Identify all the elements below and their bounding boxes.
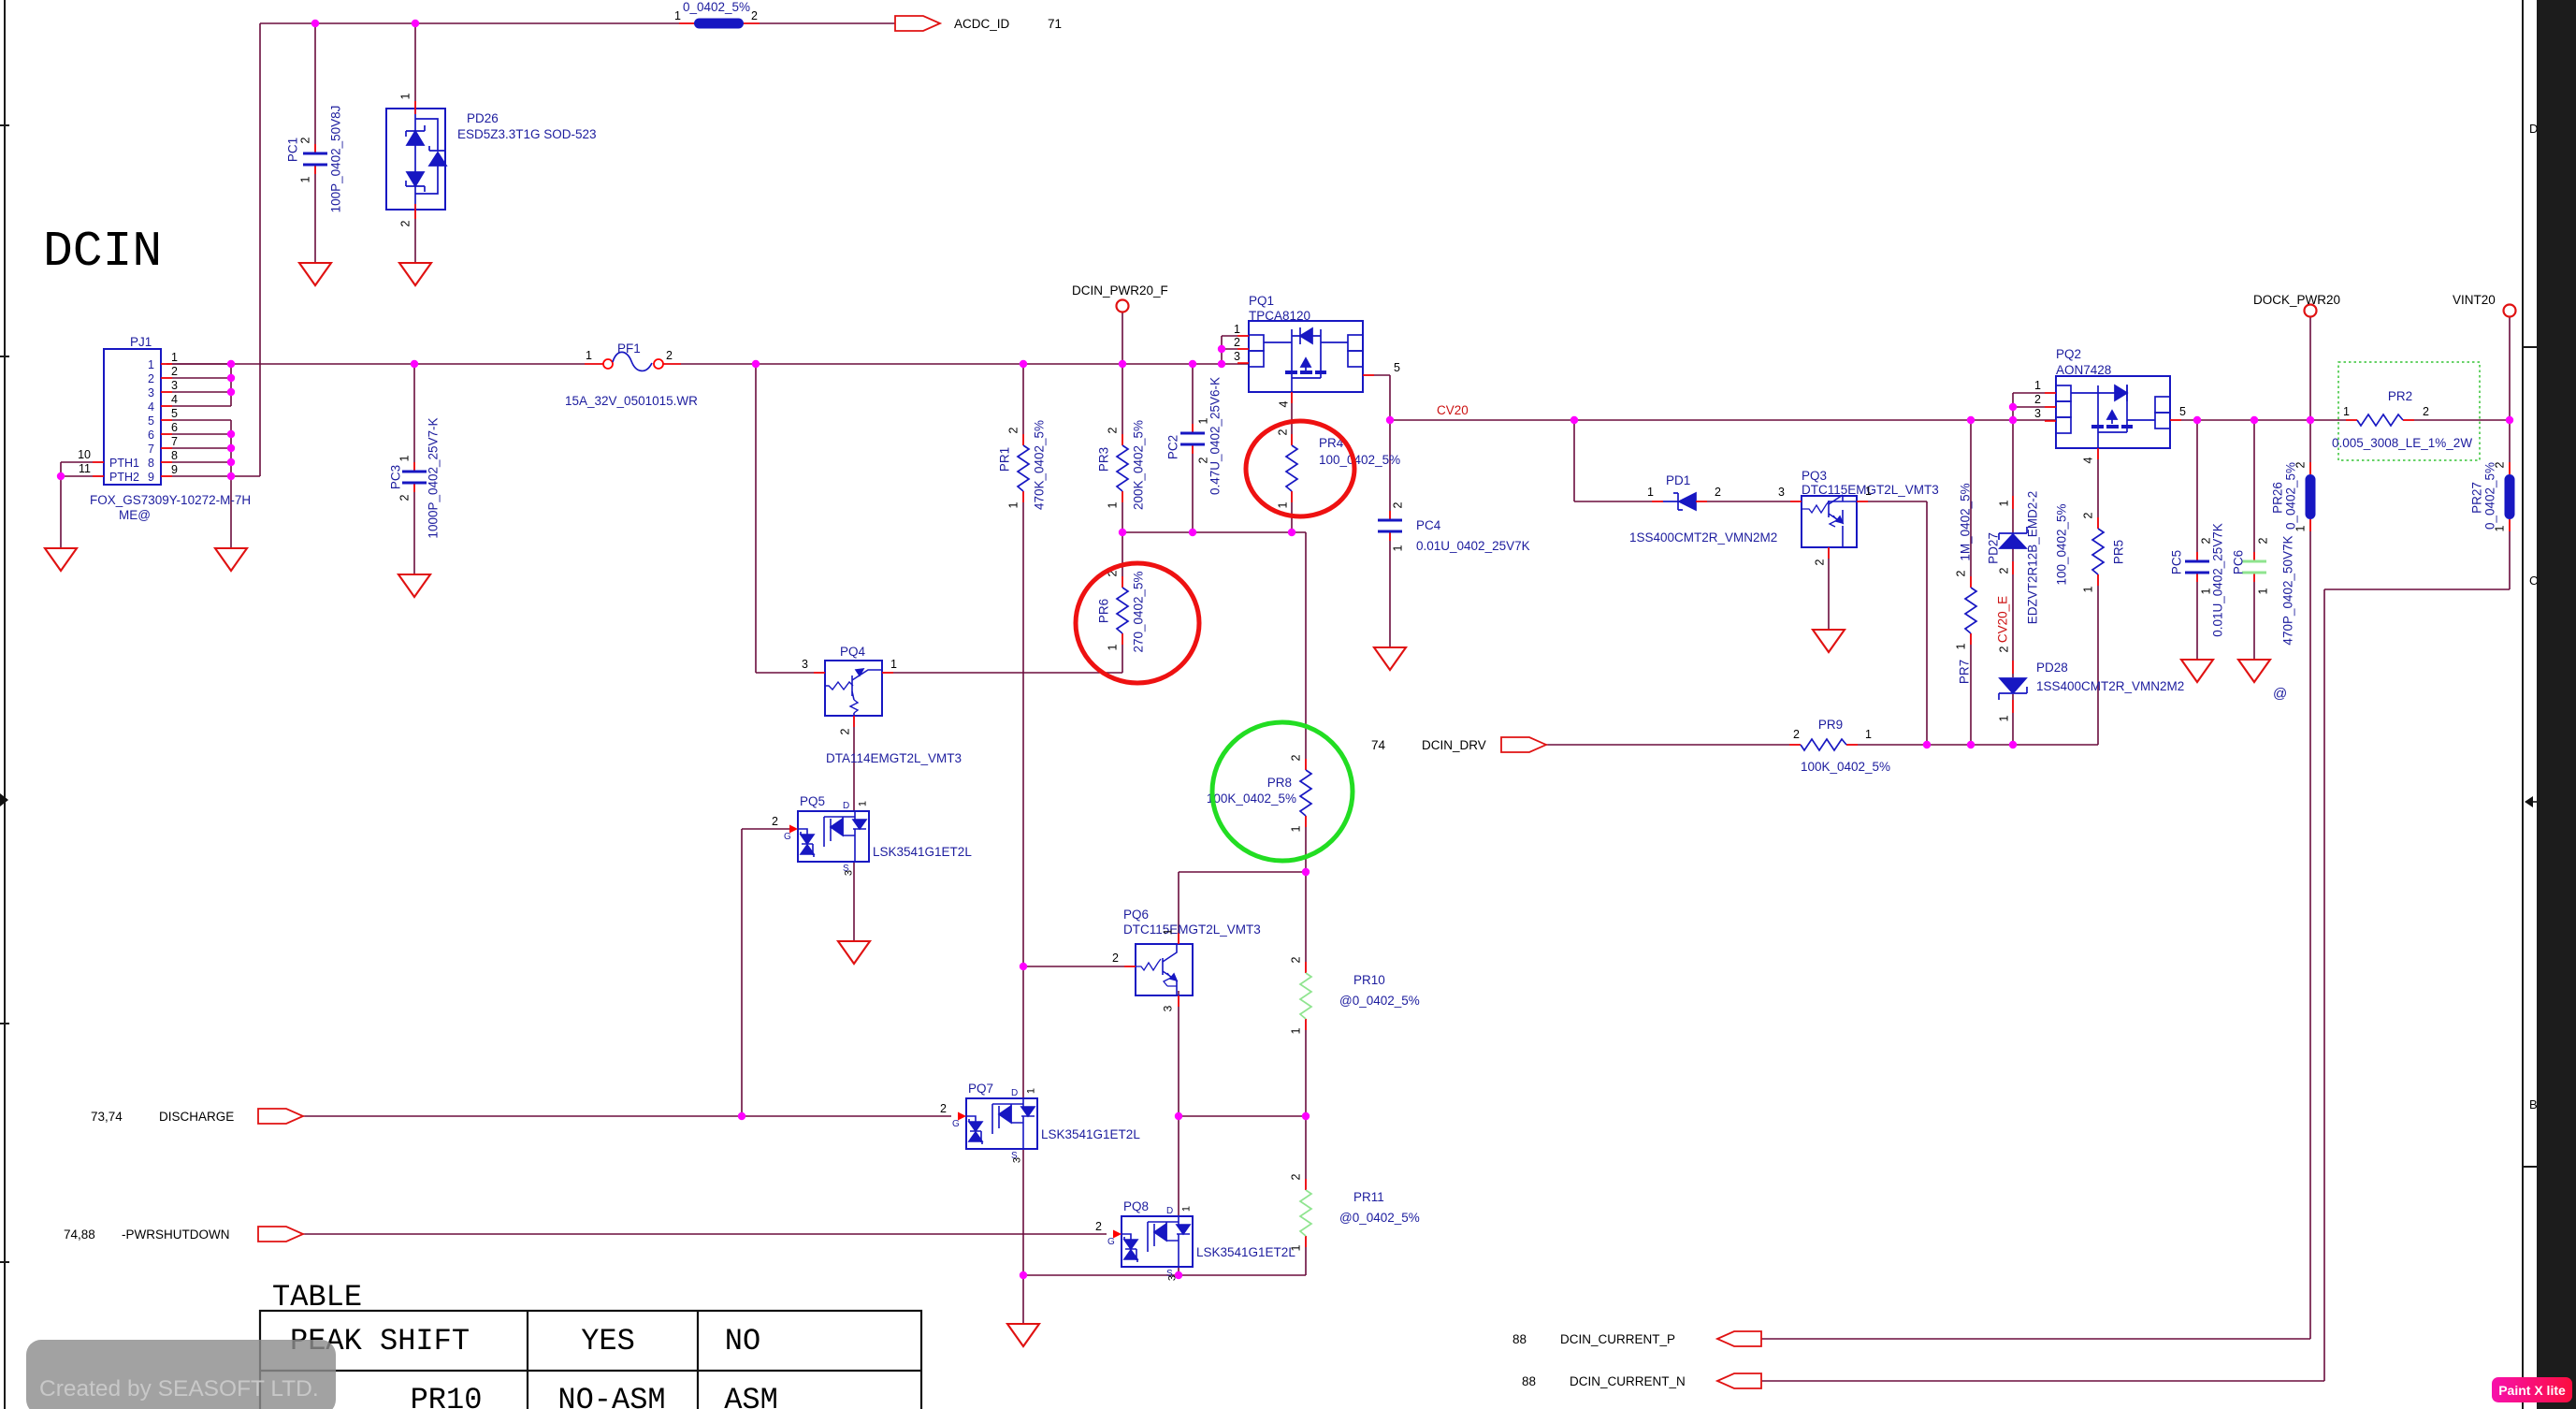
wire PQ2 pin2 wire	[2013, 406, 2056, 408]
svg-text:4: 4	[1278, 400, 1291, 407]
svg-text:2: 2	[2423, 405, 2429, 418]
sheet left border line	[4, 0, 6, 1409]
svg-text:100P_0402_50V8J: 100P_0402_50V8J	[329, 106, 343, 213]
svg-text:PR8: PR8	[1267, 776, 1292, 790]
ground PC6	[2238, 660, 2270, 682]
svg-text:PTH1: PTH1	[109, 457, 139, 470]
svg-text:2: 2	[1998, 567, 2011, 574]
wire CV20 to PD1 vertical	[1573, 420, 1575, 501]
ground PC1	[299, 263, 331, 285]
label PR1	[998, 447, 1012, 472]
junction PJ1 pin1	[227, 360, 235, 368]
wire PC3 branch	[413, 364, 415, 472]
wire PQ4 pin1 line	[882, 672, 1122, 674]
ground PQ5	[838, 941, 870, 964]
junction PJ1 pin8	[227, 458, 235, 466]
wire PC5 top	[2196, 420, 2198, 561]
junction CV20 chain	[2009, 416, 2017, 424]
ground PC4	[1374, 647, 1406, 670]
svg-text:PD28: PD28	[2036, 661, 2068, 675]
svg-text:1: 1	[1290, 1244, 1303, 1251]
svg-text:PR27: PR27	[2470, 482, 2484, 514]
svg-text:D: D	[843, 801, 849, 811]
label PC3	[389, 465, 403, 489]
svg-text:74: 74	[1371, 738, 1386, 752]
svg-text:2: 2	[1998, 646, 2011, 652]
svg-text:2: 2	[1234, 336, 1240, 349]
wire ACDC_ID top rail	[260, 22, 895, 24]
wire PC1 lower	[314, 165, 316, 263]
wire DCIN_PWR20_F stub	[1122, 312, 1123, 364]
junction PJ1 pin7	[227, 444, 235, 452]
svg-text:G: G	[952, 1119, 960, 1129]
ground PJ1 shield	[215, 548, 247, 571]
wire PQ2 pin4 wire	[2097, 448, 2099, 529]
wire PD26 branch	[414, 23, 416, 109]
junction rail PR1	[1020, 360, 1027, 368]
transistor PQ1	[1249, 321, 1363, 392]
svg-text:1: 1	[2257, 588, 2270, 594]
junction PQ1 pin2 bus	[1218, 345, 1225, 353]
svg-text:PF1: PF1	[617, 341, 641, 356]
svg-text:DCIN_DRV: DCIN_DRV	[1422, 738, 1486, 752]
svg-text:1: 1	[586, 349, 592, 362]
wire PQ6 pin3 down	[1178, 991, 1179, 1216]
label PR5	[2112, 540, 2126, 564]
svg-text:73,74: 73,74	[91, 1110, 123, 1124]
wire PR3 top	[1122, 364, 1123, 445]
svg-text:PC6: PC6	[2232, 550, 2246, 574]
svg-text:1: 1	[1290, 1027, 1303, 1034]
junction rail PR3	[1119, 360, 1126, 368]
svg-text:PC3: PC3	[389, 465, 403, 489]
svg-text:6: 6	[148, 429, 154, 442]
svg-text:@0_0402_5%: @0_0402_5%	[1339, 1211, 1420, 1225]
wire PQ6 gate line	[1023, 966, 1136, 967]
wire VINT to PR27	[2509, 420, 2511, 474]
svg-text:DOCK_PWR20: DOCK_PWR20	[2253, 293, 2340, 307]
sheet right border line	[2522, 0, 2524, 1409]
svg-text:1: 1	[171, 351, 178, 364]
transistor PQ2	[2056, 376, 2170, 448]
svg-text:7: 7	[171, 435, 178, 448]
fuse PF1	[603, 352, 663, 370]
svg-text:2: 2	[2257, 537, 2270, 544]
svg-text:PR1: PR1	[998, 447, 1012, 472]
resistor PR26	[2306, 474, 2316, 519]
svg-text:1: 1	[398, 455, 412, 461]
svg-text:PR26: PR26	[2271, 482, 2285, 514]
junction PJ1 pin3	[227, 388, 235, 396]
wire PJ1 pins5-9 gnd bus	[230, 420, 232, 548]
sheet right black margin bar	[2537, 0, 2576, 1409]
wire DCIN_CURRENT_N line	[1761, 1380, 2324, 1382]
svg-text:100_0402_5%: 100_0402_5%	[1319, 453, 1400, 467]
svg-text:ACDC_ID: ACDC_ID	[954, 17, 1010, 31]
port arrow DISCHARGE	[258, 1109, 303, 1124]
highlight circle PR4	[1246, 421, 1354, 516]
svg-text:AON7428: AON7428	[2056, 363, 2111, 377]
svg-text:2: 2	[398, 494, 412, 501]
label PD27	[1987, 532, 2001, 564]
svg-text:2: 2	[1107, 427, 1120, 433]
svg-text:PC2: PC2	[1166, 435, 1180, 459]
svg-text:B: B	[2529, 1097, 2538, 1111]
wire PC4 bottom	[1389, 531, 1391, 647]
wire DOCK_PWR20 stub	[2309, 317, 2311, 420]
junction CV20 PD1	[1570, 416, 1578, 424]
svg-text:3: 3	[2034, 407, 2041, 420]
label PR7 value	[1959, 483, 1973, 560]
svg-text:D: D	[1011, 1088, 1018, 1098]
junction rail PC2	[1189, 360, 1196, 368]
svg-text:1: 1	[858, 801, 869, 806]
svg-text:1: 1	[1998, 500, 2011, 506]
wire PC2 top	[1192, 364, 1194, 433]
svg-text:1: 1	[1865, 485, 1872, 498]
svg-text:7: 7	[148, 443, 154, 456]
svg-text:2: 2	[666, 349, 673, 362]
wire node line y569	[1122, 531, 1306, 533]
label PR6	[1097, 599, 1111, 623]
svg-text:PR10: PR10	[1353, 973, 1385, 987]
svg-text:PQ6: PQ6	[1123, 908, 1149, 922]
wire PQ3 emitter gnd	[1828, 547, 1830, 630]
svg-text:4: 4	[171, 393, 178, 406]
svg-text:1: 1	[1392, 545, 1405, 551]
junction rail PC3	[411, 360, 418, 368]
svg-text:1: 1	[1197, 417, 1210, 424]
label PC6 value	[2281, 535, 2295, 645]
wire PJ1 pins1-4 bus	[230, 364, 232, 406]
svg-text:0_0402_5%: 0_0402_5%	[2284, 462, 2298, 530]
svg-text:G: G	[784, 832, 791, 842]
label PR27 value	[2483, 462, 2497, 530]
svg-text:2: 2	[1095, 1220, 1102, 1233]
junction PQ6 gate	[1020, 963, 1027, 970]
ground PQ3	[1813, 630, 1845, 652]
wire DCIN_CURRENT_P line	[1761, 1338, 2310, 1340]
junction top rail PC1	[311, 20, 319, 27]
wire PR1 top	[1022, 364, 1024, 445]
wire PD1 right wire	[1698, 501, 1802, 502]
wire PQ7 source down	[1022, 1149, 1024, 1324]
svg-text:PD1: PD1	[1666, 473, 1690, 487]
wire PR4 bottom	[1291, 491, 1293, 532]
wire PJ1 pin4 wire	[161, 405, 231, 407]
resistor PR2	[2346, 414, 2414, 426]
wire PQ8 source stub	[1178, 1267, 1179, 1275]
svg-text:2: 2	[839, 728, 852, 734]
svg-text:TABLE: TABLE	[272, 1280, 362, 1315]
svg-text:DISCHARGE: DISCHARGE	[159, 1110, 234, 1124]
highlight circle PR6	[1076, 563, 1199, 683]
svg-text:PR6: PR6	[1097, 599, 1111, 623]
wire PC6 bottom	[2253, 573, 2255, 660]
svg-text:2: 2	[1392, 501, 1405, 508]
svg-text:270_0402_5%: 270_0402_5%	[1132, 571, 1146, 652]
wire pin9 to top rail vertical	[259, 23, 261, 476]
transistor PQ5	[798, 811, 869, 862]
svg-text:DCIN_PWR20_F: DCIN_PWR20_F	[1072, 283, 1168, 298]
svg-text:3: 3	[1012, 1157, 1023, 1163]
wire PQ1 pin5 drop	[1389, 375, 1391, 420]
svg-text:ESD5Z3.3T1G SOD-523: ESD5Z3.3T1G SOD-523	[457, 127, 597, 141]
wire PQ4 pin2 to PQ5	[853, 716, 855, 811]
junction rail x808	[752, 360, 760, 368]
svg-text:1: 1	[1026, 1088, 1037, 1094]
svg-text:PQ1: PQ1	[1249, 294, 1274, 308]
svg-text:1: 1	[1007, 501, 1020, 508]
svg-text:3: 3	[844, 870, 855, 876]
ground PC3	[398, 574, 430, 597]
svg-text:2: 2	[2494, 461, 2507, 468]
highlight circle PR8	[1212, 722, 1353, 861]
wire PR10 to PR11	[1305, 1019, 1307, 1190]
table grid	[260, 1311, 921, 1409]
junction PR8 node	[1302, 868, 1310, 876]
junction CV20E DOCK	[2307, 416, 2314, 424]
svg-text:100_0402_5%: 100_0402_5%	[2055, 503, 2069, 585]
svg-text:2: 2	[299, 137, 312, 143]
svg-text:1: 1	[2034, 379, 2041, 392]
wire PJ1 pin6 wire	[161, 433, 231, 435]
wire PTH2 wire	[61, 475, 104, 477]
wire PR5 bottom	[2097, 574, 2099, 745]
svg-text:YES: YES	[581, 1324, 635, 1358]
svg-text:1: 1	[399, 93, 412, 99]
junction CV20 PR7	[1967, 416, 1975, 424]
junction source PQ7	[1020, 1271, 1027, 1279]
svg-text:PQ7: PQ7	[968, 1082, 993, 1096]
wire DISCHARGE line	[303, 1115, 951, 1117]
svg-text:2: 2	[2200, 537, 2213, 544]
transistor PQ3	[1802, 495, 1857, 547]
ground PC5	[2181, 660, 2213, 682]
svg-text:PQ2: PQ2	[2056, 347, 2081, 361]
label PR6 value	[1132, 571, 1146, 652]
svg-text:CV20_E: CV20_E	[1996, 596, 2010, 643]
svg-text:4: 4	[148, 400, 154, 414]
assembly box PR2	[2338, 362, 2480, 460]
capacitor PC3	[402, 462, 427, 492]
capacitor PC2	[1180, 424, 1205, 454]
svg-text:2: 2	[171, 365, 178, 378]
diode PD26	[386, 109, 446, 210]
svg-text:1SS400CMT2R_VMN2M2: 1SS400CMT2R_VMN2M2	[1629, 530, 1777, 545]
svg-text:LSK3541G1ET2L: LSK3541G1ET2L	[873, 845, 972, 859]
wire PC1 branch	[314, 23, 316, 153]
junction PR9 PR7	[1967, 741, 1975, 748]
svg-text:5: 5	[2179, 405, 2186, 418]
svg-text:3: 3	[171, 379, 178, 392]
port arrow DCIN_CURRENT_P	[1717, 1331, 1761, 1346]
wire PQ1 pin2 wire	[1222, 348, 1249, 350]
wire PQ5 gate wire	[742, 828, 789, 830]
label PC5 value	[2211, 523, 2225, 637]
svg-text:2: 2	[1112, 951, 1119, 965]
label PR26 value	[2284, 462, 2298, 530]
svg-text:PD27: PD27	[1987, 532, 2001, 564]
svg-text:1: 1	[1181, 1206, 1193, 1212]
svg-text:NO-ASM: NO-ASM	[557, 1383, 665, 1409]
svg-text:0.01U_0402_25V7K: 0.01U_0402_25V7K	[1416, 539, 1530, 553]
wire PR11 bottom	[1305, 1236, 1307, 1275]
wire VINT jog	[2324, 588, 2510, 590]
svg-text:200K_0402_5%: 200K_0402_5%	[1132, 420, 1146, 510]
junction PTH bus	[57, 472, 65, 480]
svg-text:1: 1	[299, 176, 312, 182]
capacitor PC1	[303, 144, 327, 174]
wire DCIN main rail right	[663, 363, 1249, 365]
wire PR6 top	[1122, 532, 1123, 588]
label PC2	[1166, 435, 1180, 459]
svg-text:1: 1	[2494, 525, 2507, 531]
transistor PQ8	[1122, 1216, 1193, 1267]
svg-text:PC1: PC1	[286, 138, 300, 162]
svg-text:PR11: PR11	[1353, 1190, 1384, 1204]
svg-text:PQ8: PQ8	[1123, 1199, 1149, 1213]
svg-text:PQ3: PQ3	[1802, 469, 1827, 483]
wire rail to PQ4 vertical	[755, 364, 757, 673]
wire PD28 bottom	[2012, 694, 2014, 745]
resistor PR1	[1018, 434, 1029, 502]
svg-text:3: 3	[1234, 350, 1240, 363]
svg-text:3: 3	[802, 658, 808, 671]
label PC5	[2170, 550, 2184, 574]
capacitor PC5	[2185, 552, 2209, 582]
svg-text:3: 3	[148, 386, 154, 399]
wire PJ1 pin7 wire	[161, 447, 231, 449]
wire PC5 bottom	[2196, 573, 2198, 660]
svg-text:PR10: PR10	[411, 1383, 483, 1409]
junction rail PQ1 pin3	[1218, 360, 1225, 368]
resistor PR10	[1300, 962, 1311, 1030]
wire x1396 down from y569	[1305, 532, 1307, 770]
junction PR9 PD28	[2009, 741, 2017, 748]
svg-text:2: 2	[399, 220, 412, 226]
svg-text:71: 71	[1048, 17, 1062, 31]
svg-text:8: 8	[171, 449, 178, 462]
svg-text:4: 4	[2082, 457, 2095, 463]
diode PD28	[1999, 678, 2027, 700]
wire PR1 bottom long	[1022, 491, 1024, 1098]
svg-text:EDZVT2R12B_EMD2-2: EDZVT2R12B_EMD2-2	[2026, 491, 2040, 625]
svg-text:1: 1	[674, 9, 681, 22]
svg-text:0.47U_0402_25V6-K: 0.47U_0402_25V6-K	[1208, 377, 1223, 495]
svg-text:3: 3	[1778, 486, 1785, 499]
wire PR8 to PR10	[1305, 816, 1307, 973]
junction DISCHARGE PQ5	[738, 1112, 745, 1120]
svg-text:1SS400CMT2R_VMN2M2: 1SS400CMT2R_VMN2M2	[2036, 679, 2184, 693]
svg-text:PQ5: PQ5	[800, 794, 825, 808]
svg-text:ME@: ME@	[119, 508, 151, 522]
svg-text:10: 10	[78, 448, 91, 461]
label PR3 value	[1132, 420, 1146, 510]
wire CV20E out rail	[2170, 419, 2357, 421]
svg-text:FOX_GS7309Y-10272-M-7H: FOX_GS7309Y-10272-M-7H	[90, 493, 251, 507]
resistor PR4	[1286, 434, 1297, 502]
wire PJ1 pin5 wire	[161, 419, 231, 421]
port arrow ACDC_ID	[895, 16, 940, 31]
sheet right center arrow	[2525, 796, 2537, 807]
svg-text:ASM: ASM	[724, 1383, 778, 1409]
svg-text:100K_0402_5%: 100K_0402_5%	[1801, 760, 1890, 774]
wire DCIN main rail left	[166, 363, 603, 365]
junction VINT corner	[2506, 416, 2513, 424]
svg-text:TPCA8120: TPCA8120	[1249, 309, 1310, 323]
wire PC6 top	[2253, 420, 2255, 561]
svg-text:2: 2	[1277, 429, 1290, 435]
svg-text:DTA114EMGT2L_VMT3: DTA114EMGT2L_VMT3	[826, 751, 962, 765]
wire DCIN_DRV line	[1546, 744, 1801, 746]
ground PQ7 source	[1007, 1324, 1039, 1346]
port arrow DCIN_DRV	[1501, 737, 1546, 752]
wire PQ3 pin1 wire	[1857, 501, 1927, 502]
wire PR7 top	[1970, 420, 1972, 588]
wire PWRSHUTDOWN line	[303, 1233, 1107, 1235]
svg-text:5: 5	[1394, 361, 1400, 374]
svg-text:2: 2	[2294, 461, 2308, 468]
svg-text:1: 1	[1998, 715, 2011, 721]
svg-text:@: @	[2273, 686, 2287, 702]
wire PQ1 pin1 wire	[1222, 335, 1249, 337]
label PC1	[286, 138, 300, 162]
wire PC4 top	[1389, 420, 1391, 520]
svg-text:0.01U_0402_25V7K: 0.01U_0402_25V7K	[2211, 523, 2225, 637]
sheet left center arrow	[0, 793, 8, 806]
wire VINT long vertical	[2323, 589, 2325, 1381]
diode PD27	[1999, 527, 2027, 548]
wire PR3 bottom	[1122, 491, 1123, 532]
wire PJ1 pin2 wire	[161, 377, 231, 379]
svg-text:VINT20: VINT20	[2453, 293, 2496, 307]
svg-text:DCIN: DCIN	[43, 224, 162, 280]
label PR27	[2470, 482, 2484, 514]
transistor PQ7	[966, 1098, 1037, 1149]
svg-text:1: 1	[1277, 501, 1290, 508]
svg-text:2: 2	[1814, 559, 1827, 565]
svg-text:NO: NO	[725, 1324, 760, 1358]
svg-text:9: 9	[148, 471, 154, 484]
svg-text:0_0402_5%: 0_0402_5%	[683, 0, 750, 14]
capacitor PC4	[1378, 511, 1402, 541]
watermark seasoft	[26, 1340, 336, 1409]
junction PJ1 pin9 bus	[227, 472, 235, 480]
svg-text:PR9: PR9	[1818, 718, 1843, 732]
wire PQ1 pin5 wire	[1363, 374, 1390, 376]
wire CV20 rail	[1390, 419, 2056, 421]
svg-text:1: 1	[1107, 501, 1120, 508]
svg-text:PR3: PR3	[1097, 447, 1111, 472]
svg-text:74,88: 74,88	[64, 1227, 95, 1242]
junction source PQ8	[1175, 1271, 1182, 1279]
svg-text:2: 2	[1197, 457, 1210, 463]
node DCIN_PWR20_F	[1117, 300, 1129, 312]
label PC3 value	[427, 417, 441, 538]
wire PJ1 pin9 wire	[161, 475, 260, 477]
wire PJ1 pin3 wire	[161, 391, 231, 393]
resistor PR27	[2505, 474, 2515, 519]
svg-text:LSK3541G1ET2L: LSK3541G1ET2L	[1041, 1127, 1140, 1141]
wire PD27 top	[2012, 420, 2014, 533]
ground PJ1 PTH	[45, 548, 77, 571]
wire PD26 lower	[414, 210, 416, 263]
label PC6	[2232, 550, 2246, 574]
svg-text:5: 5	[148, 414, 154, 428]
svg-text:88: 88	[1512, 1332, 1527, 1346]
svg-text:D: D	[2529, 122, 2538, 136]
